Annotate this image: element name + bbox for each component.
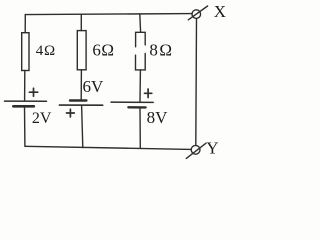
- wire branch2 top lead: [80, 15, 82, 31]
- resistor 6Ω body: [77, 31, 86, 70]
- terminal Y circle: [191, 145, 200, 154]
- battery 6V plus sign: [67, 109, 75, 117]
- wire branch3 top lead: [139, 14, 142, 32]
- wire top bus from node A to terminal X: [25, 14, 192, 15]
- svg-text:X: X: [214, 2, 226, 21]
- wire branch1 top lead: [24, 15, 26, 33]
- battery 8V negative short plate: [128, 106, 145, 108]
- wire branch2 battery to bottom bus: [82, 105, 83, 147]
- battery 2V plus sign: [29, 88, 37, 96]
- resistor 8Ω body upper bracket: [136, 32, 146, 47]
- svg-text:8Ω: 8Ω: [149, 40, 173, 59]
- battery 2V positive long plate: [5, 100, 47, 102]
- svg-text:6Ω: 6Ω: [92, 41, 114, 60]
- wire branch1 battery to bottom bus: [24, 106, 26, 146]
- terminal X circle: [192, 10, 201, 19]
- resistor 4Ω body: [22, 33, 29, 71]
- battery 6V positive long plate: [59, 104, 102, 106]
- battery 2V negative short plate: [13, 105, 33, 108]
- battery 8V plus sign: [145, 89, 152, 98]
- wire branch2 resistor to battery: [80, 70, 82, 101]
- wire bottom bus to terminal Y: [25, 146, 191, 149]
- svg-text:6V: 6V: [83, 77, 105, 96]
- resistor 8Ω body lower bracket: [136, 54, 146, 70]
- svg-text:Y: Y: [206, 139, 218, 158]
- wire branch3 resistor to battery: [139, 70, 141, 102]
- wire right edge X to Y: [195, 19, 198, 146]
- battery 6V negative short plate: [70, 99, 86, 101]
- svg-text:4Ω: 4Ω: [36, 43, 56, 59]
- terminal Y diagonal stroke: [186, 143, 206, 158]
- terminal X diagonal stroke: [188, 6, 207, 20]
- wire branch3 battery to bottom bus: [139, 108, 141, 149]
- battery 8V positive long plate: [111, 101, 153, 103]
- svg-text:2V: 2V: [32, 110, 52, 127]
- wire branch1 resistor to battery: [24, 71, 26, 101]
- svg-text:8V: 8V: [147, 108, 169, 127]
